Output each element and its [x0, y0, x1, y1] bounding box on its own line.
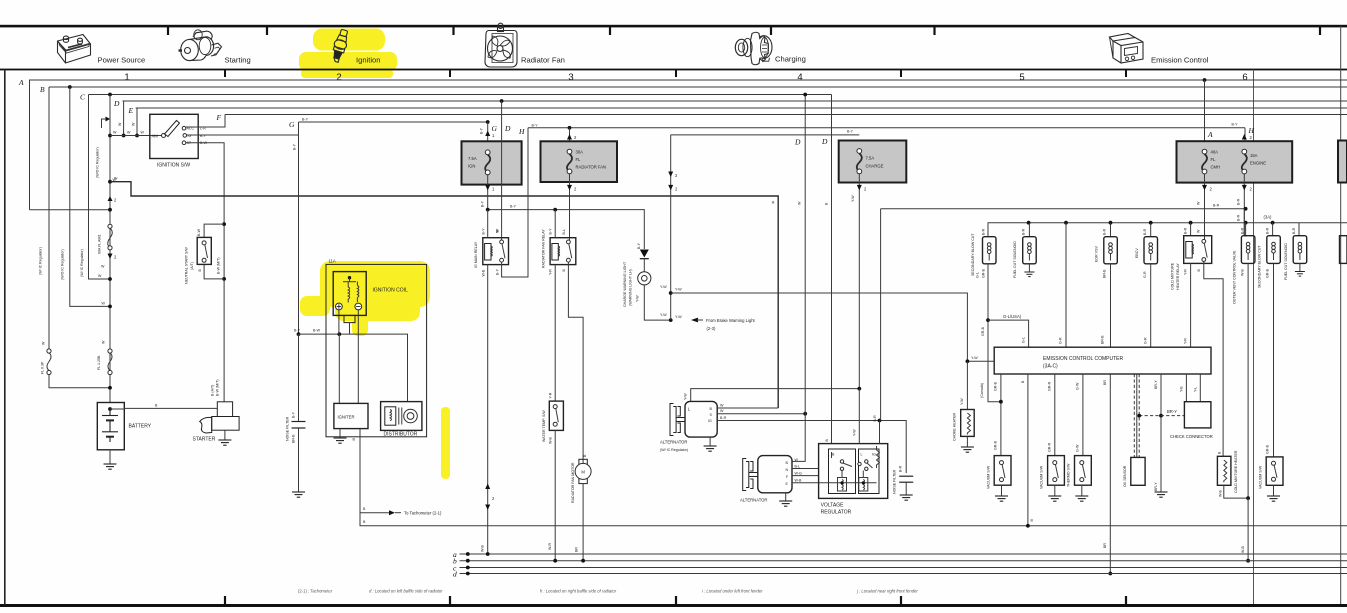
node B-Y tee 1: [486, 208, 490, 212]
ground (battery): [109, 450, 111, 464]
ground (noise filter 2): [905, 482, 907, 495]
ground (alternator 1): [709, 437, 711, 446]
wire IG to bus G: [187, 122, 299, 135]
bus B: [49, 86, 1347, 88]
svg-text:(3A): (3A): [1264, 215, 1273, 220]
vacuum switch 2: [1048, 456, 1065, 486]
section divider vertical (right of col 6): [1253, 70, 1255, 605]
svg-text:B-R: B-R: [1213, 203, 1220, 207]
svg-text:7.5A: 7.5A: [866, 156, 875, 161]
contact WTS bottom: [553, 422, 557, 426]
svg-text:B-Y: B-Y: [549, 228, 553, 235]
svg-text:B-Y: B-Y: [847, 130, 854, 134]
svg-text:FL 1.25B: FL 1.25B: [97, 355, 101, 370]
svg-text:B-Y: B-Y: [495, 268, 499, 275]
svg-text:W-B: W-B: [1218, 489, 1222, 497]
svg-text:1: 1: [124, 72, 129, 83]
svg-text:EBCV: EBCV: [1135, 248, 1139, 258]
node Y-W branch tee: [669, 291, 673, 295]
wire G-R (2nd computer top pin): [1065, 223, 1067, 348]
GR-B wire down + G-L branch: [988, 264, 1001, 402]
15A output B-R down: [1243, 174, 1245, 236]
node feed taps: [1027, 221, 1031, 225]
svg-text:(2-1) : Tachometer: (2-1) : Tachometer: [298, 589, 333, 594]
ground (BR-Y): [1155, 492, 1168, 497]
pin GR-R to vacuum sw 2: [1054, 374, 1056, 456]
contact CMH relay top: [1202, 239, 1206, 243]
svg-text:B-Y: B-Y: [200, 134, 207, 138]
svg-text:G-L: G-L: [976, 272, 980, 278]
fuse element 7.5A IGN: [485, 150, 490, 175]
svg-text:CHECK CONNECTOR: CHECK CONNECTOR: [1170, 434, 1213, 439]
svg-text:Power Source: Power Source: [98, 56, 146, 65]
svg-text:G: G: [289, 120, 295, 129]
svg-text:BATTERY: BATTERY: [129, 424, 152, 430]
bus E: [136, 107, 1347, 109]
node G bus end: [486, 120, 490, 124]
svg-text:BR-B: BR-B: [292, 434, 296, 443]
svg-text:W-B: W-B: [1240, 268, 1244, 276]
node B on ground line: [1026, 524, 1030, 528]
dashed pins to OX sensor: [1133, 374, 1135, 457]
svg-text:ALTERNATOR: ALTERNATOR: [660, 440, 687, 445]
svg-text:(2-3): (2-3): [707, 326, 716, 331]
svg-text:W: W: [720, 403, 724, 407]
svg-text:2: 2: [336, 72, 341, 83]
wire igniter B to tachometer: [360, 429, 389, 513]
solenoid: FUEL CUT SOLENOID: [1028, 223, 1030, 237]
svg-text:From Brake Warning Light: From Brake Warning Light: [706, 318, 756, 323]
svg-text:15A: 15A: [1250, 153, 1258, 158]
contact vac2 bottom: [1053, 478, 1057, 482]
svg-text:VOLTAGE: VOLTAGE: [821, 503, 845, 509]
node neutral start bottom: [222, 277, 226, 281]
svg-text:W: W: [132, 122, 136, 126]
neutral start switch: [204, 224, 224, 279]
wire bus E tap to ignition switch: [136, 108, 138, 136]
svg-text:D: D: [504, 124, 511, 133]
svg-text:B-R: B-R: [1103, 228, 1107, 235]
fuse element 30A: [567, 149, 572, 174]
FUEL CUT SOLENOID (right): [1298, 223, 1300, 236]
charge circuit vertical: [670, 135, 672, 320]
svg-text:FL 0.3P: FL 0.3P: [41, 361, 45, 374]
svg-text:B-R: B-R: [873, 415, 877, 422]
svg-text:SECONDARY BLOW CUT: SECONDARY BLOW CUT: [971, 233, 975, 276]
check connector: [1184, 402, 1211, 428]
svg-text:GR-B: GR-B: [994, 440, 998, 450]
svg-text:B-Y: B-Y: [294, 329, 301, 333]
relay switch out B to cold mixture heater: [1204, 261, 1223, 456]
igniter: [334, 403, 368, 428]
ground (choke heater): [966, 436, 968, 447]
solenoid: SECONDARY BLOW CUT: [983, 237, 997, 264]
ground (vacuum sw right): [1273, 485, 1275, 496]
svg-text:H: H: [518, 127, 525, 136]
contact relay2 bottom: [567, 258, 571, 262]
svg-text:(3A-C): (3A-C): [1043, 364, 1058, 370]
choke heater: [966, 361, 968, 409]
brake warning light stub: [691, 318, 698, 323]
spark plug icon (Ignition): [330, 28, 351, 63]
svg-text:G-W: G-W: [1076, 444, 1080, 452]
column numbers: [124, 72, 1247, 83]
left border: [4, 69, 6, 605]
svg-text:B: B: [40, 85, 45, 94]
bus F: [225, 114, 1347, 116]
svg-text:A: A: [18, 78, 24, 87]
svg-text:Y-B: Y-B: [1179, 386, 1183, 392]
contact relay1 bottom: [500, 258, 504, 262]
node W junction at battery feed: [108, 305, 112, 309]
svg-text:Y-W: Y-W: [851, 195, 855, 202]
svg-text:SECONDARY BLOW CUT: SECONDARY BLOW CUT: [1257, 245, 1261, 288]
node coil top junction: [348, 276, 351, 279]
ground (fuel cut solenoid): [1028, 264, 1030, 272]
svg-text:B-L: B-L: [562, 229, 566, 235]
pin B to ground line: [1027, 374, 1029, 526]
OX sensor: [1131, 457, 1145, 485]
contact NSW bottom: [202, 258, 206, 262]
contact WTS top: [553, 405, 557, 409]
ground symbol vac sw1: [995, 496, 1008, 501]
svg-text:EGR VSV: EGR VSV: [1095, 245, 1099, 262]
svg-text:W: W: [1197, 229, 1201, 233]
node C bus tap right: [803, 93, 807, 97]
svg-text:IG: IG: [872, 453, 876, 457]
node bus b junction: [1246, 559, 1250, 563]
svg-text:Y-W: Y-W: [960, 398, 964, 405]
svg-text:RADIATOR FAN RELAY: RADIATOR FAN RELAY: [542, 229, 546, 268]
svg-text:B-W (M/T): B-W (M/T): [215, 379, 219, 396]
svg-text:B-Y: B-Y: [637, 242, 641, 249]
bus C: [89, 94, 832, 96]
svg-text:Charging: Charging: [775, 55, 806, 64]
bus H: [528, 127, 1245, 129]
svg-text:W: W: [98, 274, 102, 278]
yellow highlight ignition coil area: [300, 261, 430, 336]
svg-text:7.5A: 7.5A: [468, 156, 477, 161]
svg-text:COLD MIXTURE HEATER: COLD MIXTURE HEATER: [1234, 450, 1238, 493]
svg-text:A: A: [1207, 130, 1213, 139]
node B-R junction: [878, 419, 882, 423]
ground symbol battery: [104, 464, 117, 469]
svg-text:Y-W: Y-W: [675, 315, 682, 319]
OUTER VENT CONTROL VALVE: [1245, 223, 1248, 237]
vacuum switch 1: [994, 456, 1011, 486]
svg-text:d: d: [453, 570, 457, 579]
alt1 pin wires: [717, 407, 778, 409]
wire battery to starter: [110, 407, 217, 410]
ground (igniter): [339, 429, 341, 438]
svg-text:W: W: [795, 458, 799, 462]
svg-text:B-Y: B-Y: [1232, 123, 1239, 127]
svg-text:EMISSION CONTROL COMPUTER: EMISSION CONTROL COMPUTER: [1043, 356, 1123, 362]
fuse element 15A ENGINE: [1242, 149, 1247, 174]
svg-text:CHOKE HEATER: CHOKE HEATER: [953, 413, 957, 441]
svg-text:BR-Y: BR-Y: [1154, 482, 1158, 491]
distributor signal generator: [385, 407, 396, 425]
B-R feed line from 15A to alternator IG: [881, 208, 1246, 210]
svg-text:W: W: [1197, 201, 1201, 205]
solenoid: EGR VSV: [1110, 223, 1112, 237]
svg-text:W: W: [101, 265, 105, 269]
node B bus tap: [68, 85, 72, 89]
wire bus B corner down (W/ IC Regulator) to FL 0.3P: [48, 87, 50, 349]
ground (noise filter): [292, 492, 305, 497]
ground symbol fuel cut right: [1295, 272, 1305, 277]
svg-text:j : Located near right front f: j : Located near right front fender: [856, 589, 918, 594]
svg-text:HEATER RELAY: HEATER RELAY: [1176, 263, 1180, 290]
wire B ground line lower: [360, 513, 1347, 526]
node bus b start: [466, 559, 470, 563]
contact vacR bottom: [1272, 477, 1276, 481]
svg-text:Y-W: Y-W: [675, 288, 682, 292]
svg-text:Y-R: Y-R: [1184, 338, 1188, 344]
svg-text:60A FL AM1: 60A FL AM1: [98, 235, 102, 254]
wire AM feed: [110, 135, 163, 137]
distributor cap: [404, 409, 418, 423]
ground (alternator 2): [785, 493, 787, 501]
node neutral start top: [222, 222, 226, 226]
pin G-W to thermo sw: [1082, 374, 1084, 456]
svg-text:IGNITION S/W: IGNITION S/W: [157, 163, 190, 169]
node B-R join: [1244, 207, 1248, 211]
COLD MIXTURE HEATER RELAY: [1190, 223, 1192, 236]
node Canada join: [999, 400, 1003, 404]
wire B-Y distribution line: [488, 210, 645, 249]
ground symbol thermo: [1075, 496, 1088, 501]
wire BR-Y to ground: [1160, 374, 1162, 492]
svg-text:VACUUM S/W: VACUUM S/W: [986, 465, 990, 489]
svg-text:B-L: B-L: [795, 464, 801, 468]
svg-text:B-R: B-R: [899, 465, 903, 472]
svg-text:Ignition: Ignition: [356, 56, 381, 65]
SECONDARY BLOW CUT (right): [1272, 223, 1274, 236]
svg-text:Y-L: Y-L: [1194, 387, 1198, 392]
pin BR to bus d: [1109, 374, 1111, 574]
ground symbol alt1: [704, 446, 717, 451]
wire W jog from main feed: [110, 182, 778, 408]
svg-text:W: W: [798, 201, 802, 205]
wire C end corner down to regulator B (x=831.5): [831, 95, 833, 444]
block 1A outline: [326, 264, 427, 436]
svg-text:GR-B: GR-B: [981, 326, 985, 336]
svg-text:B-R: B-R: [1022, 228, 1026, 235]
contact vacR top: [1272, 461, 1276, 465]
svg-text:(A/T): (A/T): [190, 262, 194, 270]
node battery terminal: [108, 407, 112, 411]
svg-text:G-R: G-R: [1144, 337, 1148, 344]
wire ST down to starter: [186, 143, 224, 402]
Y-W input: [967, 360, 994, 362]
cut solenoid at right edge: [1340, 236, 1347, 264]
svg-text:i : Located under left front f: i : Located under left front fender: [702, 589, 763, 594]
switch lever: [165, 121, 180, 137]
svg-text:FL: FL: [576, 157, 582, 162]
svg-text:B-R: B-R: [1143, 228, 1147, 235]
node C bus tap: [108, 93, 112, 97]
wire alt2 B from S-dot: [792, 414, 805, 462]
svg-text:(W/ IC Regulator): (W/ IC Regulator): [80, 249, 84, 277]
fusible link FL 0.3P: [47, 349, 109, 388]
contact CMH relay bottom: [1202, 258, 1206, 262]
svg-text:W-B: W-B: [1241, 545, 1245, 553]
svg-text:Y-W: Y-W: [684, 393, 688, 400]
emission control icon: [1110, 34, 1144, 64]
regulator internals: [832, 446, 880, 491]
ground (starter): [224, 430, 226, 440]
pins Y-B / Y-L to check connector: [1185, 374, 1187, 402]
ignition switch: [150, 114, 198, 158]
node W-B junction: [1246, 496, 1250, 500]
svg-text:B-W (M/T): B-W (M/T): [216, 257, 220, 274]
note arrow (W/O IC Regulator): [102, 119, 107, 128]
ground (vacuum sw 2): [1054, 485, 1056, 496]
bus D: [123, 100, 1347, 102]
svg-text:G: G: [492, 124, 498, 133]
contact vac1 top: [1000, 461, 1004, 465]
svg-text:W: W: [141, 131, 145, 135]
node Y-W charge tee: [857, 387, 861, 391]
svg-text:5: 5: [1019, 72, 1024, 83]
node A bus tap: [1203, 78, 1207, 82]
svg-text:H: H: [1248, 126, 1255, 135]
svg-text:Starting: Starting: [225, 56, 251, 65]
noise filter capacitor: [298, 334, 300, 492]
svg-text:W: W: [102, 340, 106, 344]
svg-text:REGULATOR: REGULATOR: [821, 510, 852, 516]
svg-text:D: D: [821, 137, 828, 146]
coil terminal +: [336, 303, 343, 310]
svg-text:COLD MIXTURE: COLD MIXTURE: [1170, 262, 1174, 290]
wire C-tap down to alt S (x=805): [804, 95, 806, 414]
fuse element 7.5A CHARGE: [857, 149, 862, 174]
wire ACC to bus F: [186, 115, 225, 128]
svg-text:GR-B: GR-B: [1266, 444, 1270, 454]
svg-text:FUEL CUT SOLENOID: FUEL CUT SOLENOID: [1013, 241, 1017, 278]
ground symbol alt2: [779, 501, 792, 506]
header bottom line: [0, 69, 1347, 71]
contact thermo bottom: [1080, 478, 1084, 482]
svg-text:GR-R: GR-R: [1048, 442, 1052, 452]
svg-text:STARTER: STARTER: [193, 437, 216, 443]
40A output W down to CMH relay: [1204, 174, 1206, 241]
fan relay switch out B to motor: [568, 262, 583, 463]
node BR on bus d: [1108, 572, 1112, 576]
svg-text:W: W: [102, 302, 106, 306]
svg-text:D: D: [113, 99, 120, 108]
svg-text:Emission Control: Emission Control: [1151, 56, 1209, 65]
svg-text:E: E: [128, 106, 134, 115]
svg-text:RADIATOR FAN MOTOR: RADIATOR FAN MOTOR: [571, 462, 575, 503]
svg-text:W-G: W-G: [795, 471, 803, 475]
contact ST: [182, 141, 186, 145]
node dashed tee: [1137, 414, 1141, 418]
contact thermo top: [1080, 461, 1084, 465]
svg-text:Y-W: Y-W: [636, 295, 640, 302]
frame: top border: [0, 25, 1347, 28]
ground symbol vac sw right: [1267, 496, 1280, 501]
svg-text:BR: BR: [575, 547, 579, 552]
svg-text:NOISE FILTER: NOISE FILTER: [286, 416, 290, 441]
battery icon (Power Source): [58, 35, 91, 64]
svg-text:IG: IG: [188, 134, 192, 138]
svg-text:N: N: [786, 468, 789, 472]
ground (vacuum sw 1): [1001, 485, 1003, 496]
cold mixture heater: [1217, 456, 1231, 485]
svg-text:11A: 11A: [329, 259, 336, 264]
page arrows on main feed: [108, 196, 113, 201]
svg-text:G-L: G-L: [1021, 337, 1025, 343]
fan relay coil out Y-R down to water temp sw: [554, 265, 556, 402]
svg-text:OUTER VENT CONTROL VALVE: OUTER VENT CONTROL VALVE: [1233, 250, 1237, 304]
svg-text:F: F: [216, 113, 222, 122]
svg-text:M: M: [581, 470, 585, 475]
svg-text:Y-R: Y-R: [549, 269, 553, 275]
ground symbol fuel cut: [1024, 272, 1034, 277]
svg-text:GR-B: GR-B: [994, 381, 998, 391]
alternator icon (Charging): [735, 32, 772, 65]
node bus d start: [466, 572, 470, 576]
svg-text:d : Located on left baffle sid: d : Located on left baffle side of radia…: [369, 589, 443, 594]
svg-text:Radiator Fan: Radiator Fan: [521, 56, 565, 65]
svg-text:B-Y: B-Y: [292, 411, 296, 418]
ground symbol starter: [218, 440, 231, 445]
relay coil out Y-R to computer: [1190, 263, 1192, 347]
noise filter 2 capacitor: [899, 476, 913, 482]
starter icon (Starting): [179, 30, 222, 61]
contact relay2 top: [567, 240, 571, 244]
fuse 7.5A CHARGE: [839, 141, 907, 183]
node bus a start: [466, 552, 470, 556]
node warning light tee: [669, 318, 673, 322]
svg-text:To Tachometer (2-1): To Tachometer (2-1): [404, 511, 442, 516]
svg-text:G-R: G-R: [1059, 337, 1063, 344]
wire bus H corner into 15A fuse: [1244, 128, 1246, 141]
svg-text:Y-W: Y-W: [971, 356, 978, 360]
node H bus tap: [568, 126, 572, 130]
svg-text:VACUUM S/W: VACUUM S/W: [1258, 465, 1262, 489]
Y-W line to computer: [671, 293, 968, 361]
svg-text:30A: 30A: [576, 150, 584, 155]
contact IG: [183, 134, 187, 138]
svg-text:W: W: [114, 177, 118, 181]
svg-text:FL: FL: [1211, 157, 1217, 162]
contact ACC: [182, 126, 186, 130]
contact vac2 top: [1053, 461, 1057, 465]
cut fuse box at right edge: [1338, 141, 1347, 183]
svg-text:GR-R: GR-R: [1048, 381, 1052, 391]
svg-text:BR-B: BR-B: [1100, 335, 1104, 344]
svg-text:CHARGE: CHARGE: [866, 164, 884, 169]
svg-text:NOISE FILTER: NOISE FILTER: [893, 469, 897, 494]
svg-text:IG: IG: [708, 419, 712, 423]
node BR-Y cross: [1159, 414, 1163, 418]
svg-text:B-R: B-R: [1266, 227, 1270, 234]
wire to charge fuse: [671, 134, 860, 136]
dashed BR-Y link to check connector: [1139, 415, 1184, 417]
yellow highlight bar right of distributor: [441, 407, 450, 479]
wire coil + to igniter: [338, 310, 340, 404]
svg-text:WATER TEMP. S/W: WATER TEMP. S/W: [542, 410, 546, 442]
node W junction alt S: [803, 412, 807, 416]
fuse element 40A CMH: [1202, 149, 1207, 174]
svg-text:B-R: B-R: [720, 416, 727, 420]
fan relay coil feed: [554, 210, 556, 238]
svg-text:W: W: [720, 409, 724, 413]
svg-text:4: 4: [797, 72, 802, 83]
